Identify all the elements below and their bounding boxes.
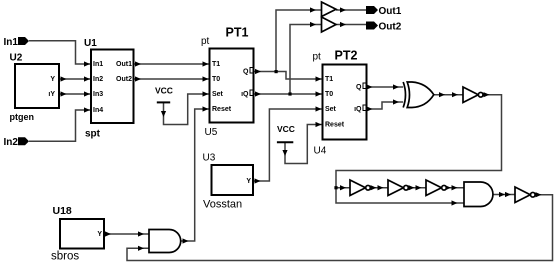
arrow N2 to N3 a <box>371 185 377 190</box>
svg-text:U5: U5 <box>205 127 218 138</box>
pin arrow PT2.Q <box>367 84 373 89</box>
svg-text:T1: T1 <box>325 76 333 83</box>
svg-text:PT2: PT2 <box>335 48 358 62</box>
wire buffer B2 output to Out2 port <box>336 24 366 26</box>
wire feedback node to AND2 bottom input <box>336 188 464 203</box>
wire inverter N1 output to feedback node <box>336 95 502 188</box>
svg-text:VCC: VCC <box>155 86 173 96</box>
wire In2 port to U1.In4 <box>29 110 90 141</box>
svg-text:Q: Q <box>243 69 249 76</box>
wire XOR output to inverter N1 input <box>434 94 463 96</box>
arrow into AND1 bottom input <box>138 246 144 251</box>
wire PT2.Q to XOR top input <box>368 86 404 88</box>
output port Out1 <box>366 6 402 17</box>
wire U2.Y to U1.In2 <box>60 78 90 80</box>
wire VCC2 to PT2.Reset <box>285 125 322 164</box>
pin arrow U1.Out2 <box>135 76 141 81</box>
pin arrow PT1.nQ <box>255 91 261 96</box>
wire U1.Out2 to PT1.T0 <box>135 78 209 80</box>
pin arrow PT2.Reset <box>316 122 322 127</box>
svg-text:In1: In1 <box>93 61 103 68</box>
inverter N1 (after XOR) <box>463 87 483 103</box>
block U1 spt <box>84 38 134 140</box>
wire VCC1 to PT1.Set <box>164 94 209 125</box>
input port In1 <box>4 37 30 48</box>
pin arrow PT1.Reset <box>203 106 209 111</box>
pin arrow U2.Y <box>61 76 67 81</box>
wire U3.Y to PT2.Set <box>254 109 322 181</box>
svg-text:Y: Y <box>246 178 251 185</box>
svg-text:In2: In2 <box>93 76 103 83</box>
wire inverter N4 output to AND2 top input <box>447 187 465 189</box>
svg-text:VCC: VCC <box>277 124 295 134</box>
wire junction at PT1.Q to PT2.T1 <box>276 72 322 80</box>
junction node feedback split <box>334 186 337 189</box>
svg-text:In2: In2 <box>4 137 19 148</box>
arrow N3 to N4 a <box>409 185 415 190</box>
wire PT1.Q to buffer B1 input <box>255 10 322 72</box>
svg-text:Out2: Out2 <box>379 21 402 32</box>
inverter N3 <box>388 180 408 196</box>
arrow into XOR top input <box>393 84 399 89</box>
svg-text:Y: Y <box>50 76 55 83</box>
pin arrow PT2.nQ <box>367 106 373 111</box>
input port In2 <box>4 137 30 148</box>
power symbol VCC2 <box>277 124 295 142</box>
pin arrow U18.Y <box>105 231 111 236</box>
pin arrow PT1.Q <box>255 69 261 74</box>
pin arrow PT2.T0 <box>316 91 322 96</box>
svg-text:U1: U1 <box>84 38 97 49</box>
svg-text:In1: In1 <box>4 37 19 48</box>
svg-text:ptgen: ptgen <box>10 112 35 122</box>
block PT2 (U4) <box>313 48 367 156</box>
wire inverter N2 output to N3 input <box>370 187 388 189</box>
svg-text:sbros: sbros <box>51 251 79 263</box>
XOR gate X1 <box>403 82 434 108</box>
arrow AND2 bottom input <box>452 200 458 205</box>
pin arrow U1.In1 <box>84 61 90 66</box>
pin arrow PT2.Set <box>316 106 322 111</box>
svg-text:Reset: Reset <box>212 106 232 113</box>
wire In1 port to U1.In1 <box>29 41 90 64</box>
svg-text:spt: spt <box>85 129 101 140</box>
svg-text:Set: Set <box>212 91 224 98</box>
svg-text:PT1: PT1 <box>226 25 249 39</box>
junction node at PT1.Q split <box>275 70 278 73</box>
svg-text:Reset: Reset <box>325 122 345 129</box>
svg-text:ıQ: ıQ <box>354 106 362 113</box>
output port Out2 <box>366 21 402 32</box>
arrow N4 to AND2 b <box>452 185 458 190</box>
pin arrow PT1.T1 <box>203 61 209 66</box>
arrow into AND1 top input <box>138 231 144 236</box>
wire AND1 output to PT1.Reset <box>181 109 209 241</box>
svg-text:T0: T0 <box>212 76 220 83</box>
svg-text:pt: pt <box>201 36 210 47</box>
wire U1.Out1 to PT1.T1 <box>135 63 209 65</box>
arrow XOR output 1 <box>439 92 445 97</box>
pin arrow U1.Out1 <box>135 61 141 66</box>
svg-text:In4: In4 <box>93 107 103 114</box>
svg-text:ıQ: ıQ <box>241 91 249 98</box>
ARROWHEADS <box>61 7 542 251</box>
svg-text:U2: U2 <box>10 53 23 64</box>
svg-text:U3: U3 <box>203 153 216 164</box>
buffer B1 (to Out1) <box>322 2 337 17</box>
wire inverter N3 output to N4 input <box>408 187 426 189</box>
AND gate AND1 (bottom left) <box>149 230 181 253</box>
svg-text:Out1: Out1 <box>116 61 132 68</box>
arrow N2 to N3 b <box>378 185 384 190</box>
arrow XOR output 2 <box>452 92 458 97</box>
arrow N3 to N4 b <box>416 185 422 190</box>
svg-text:Q: Q <box>356 84 362 91</box>
arrow after inverter N1 <box>484 92 490 97</box>
inverter N2 <box>350 180 370 196</box>
arrow buffer B1 output <box>340 7 346 12</box>
svg-text:pt: pt <box>313 51 322 62</box>
wire AND2 output to inverter N5 input <box>493 194 515 196</box>
pin arrow PT2.T1 <box>316 76 322 81</box>
svg-text:U4: U4 <box>314 145 327 156</box>
svg-text:Out2: Out2 <box>116 76 132 83</box>
arrow feedback into chain <box>340 185 346 190</box>
block U2 ptgen <box>10 53 60 122</box>
svg-text:In3: In3 <box>93 91 103 98</box>
pin arrow PT1.Set <box>203 91 209 96</box>
svg-text:U18: U18 <box>53 205 72 217</box>
wire inverter N5 output to AND1 bottom input (feedback loop) <box>127 195 553 261</box>
arrow AND1 output <box>183 238 189 243</box>
arrow into XOR bottom input <box>393 99 399 104</box>
arrow VCC1 stem down <box>161 111 166 117</box>
wire feedback node to inverter chain N2 input <box>336 187 350 189</box>
arrow after inverter N5 <box>536 192 542 197</box>
arrow AND2 output a <box>499 192 505 197</box>
buffer B2 (to Out2) <box>322 17 337 32</box>
pin arrow U1.In3 <box>84 91 90 96</box>
pin arrow PT1.T0 <box>203 76 209 81</box>
wire U18.Y to AND1 top input <box>105 233 149 235</box>
arrow AND2 output b <box>505 192 511 197</box>
wire junction at PT1.nQ to PT2.T0 <box>290 93 322 95</box>
arrow into buffer B2 <box>310 22 316 27</box>
wire buffer B1 output to Out1 port <box>336 9 366 11</box>
svg-text:ıY: ıY <box>48 91 55 98</box>
wire U2.nY to U1.In3 <box>60 93 90 95</box>
pin arrow U1.In4 <box>84 107 90 112</box>
block U3 Vosstan <box>203 153 254 211</box>
wire PT1.nQ to buffer B2 input <box>255 25 322 95</box>
svg-text:Y: Y <box>97 231 102 238</box>
power symbol VCC1 <box>155 86 173 103</box>
arrow buffer B2 output <box>340 22 346 27</box>
AND gate AND2 <box>464 182 493 207</box>
svg-text:T0: T0 <box>325 91 333 98</box>
arrow into buffer B1 <box>310 7 316 12</box>
wire PT2.nQ to XOR bottom input <box>368 102 404 109</box>
svg-text:Vosstan: Vosstan <box>203 198 242 210</box>
block PT1 (U5) <box>201 25 254 138</box>
inverter N5 (after AND2) <box>515 187 535 203</box>
pin arrow U2.nY <box>61 91 67 96</box>
svg-text:Out1: Out1 <box>379 6 402 17</box>
pin arrow U3.Y <box>255 178 261 183</box>
svg-text:Set: Set <box>325 106 337 113</box>
arrow VCC2 stem down <box>282 150 287 156</box>
svg-text:T1: T1 <box>212 61 220 68</box>
inverter N4 <box>426 180 446 196</box>
block U18 sbros <box>51 205 104 263</box>
arrow N4 to AND2 a <box>445 185 451 190</box>
pin arrow U1.In2 <box>84 76 90 81</box>
junction node at PT1.nQ split <box>288 92 291 95</box>
